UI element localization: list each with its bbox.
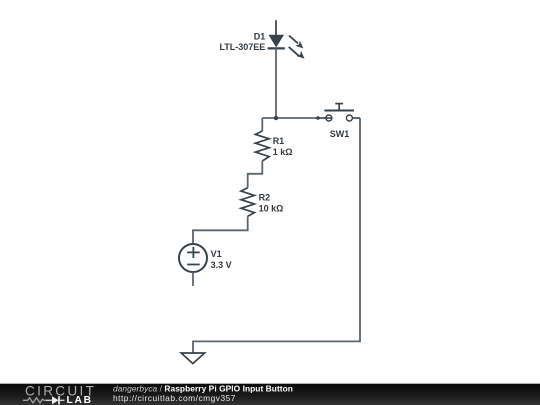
svg-text:http://circuitlab.com/cmgv357: http://circuitlab.com/cmgv357: [113, 393, 236, 403]
voltage source V1: [179, 244, 207, 272]
svg-text:R1: R1: [273, 136, 285, 146]
svg-text:LAB: LAB: [67, 395, 93, 405]
wire: node A corner down to R1: [261, 118, 263, 131]
svg-text:3.3 V: 3.3 V: [211, 260, 232, 270]
resistor R2: [241, 188, 254, 217]
node A junction dot: [274, 116, 278, 120]
svg-text:1 kΩ: 1 kΩ: [273, 147, 293, 157]
svg-text:10 kΩ: 10 kΩ: [259, 204, 284, 214]
svg-text:D1: D1: [254, 31, 266, 41]
svg-text:SW1: SW1: [330, 129, 350, 139]
wire: R2 bottom to V1 top: [193, 216, 248, 244]
wire: switch right side down and across to ground: [193, 118, 360, 353]
footer bar: [0, 384, 540, 405]
node: wire end dot at switch pin: [316, 116, 320, 120]
wire: V1 bottom stub (dangling): [192, 272, 194, 286]
logo resistor zigzag: [23, 398, 46, 403]
ground: [181, 353, 204, 364]
LED D1 symbol: [268, 35, 305, 58]
logo diode: [46, 396, 65, 404]
svg-text:R2: R2: [259, 193, 271, 203]
resistor R1: [255, 131, 269, 161]
wire: R1 bottom jog to R2 top: [248, 161, 263, 188]
switch SW1 (pushbutton): [317, 104, 361, 121]
wire: LED cathode down to node A: [275, 48, 277, 118]
wire: horizontal node A run to switch: [262, 117, 318, 119]
wire: LED anode stub (top): [275, 20, 277, 35]
svg-text:V1: V1: [211, 249, 222, 259]
svg-text:LTL-307EE: LTL-307EE: [219, 42, 265, 52]
